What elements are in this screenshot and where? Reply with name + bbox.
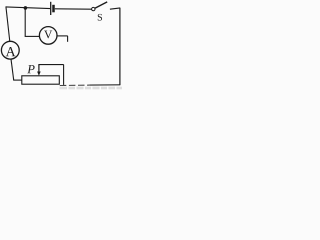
label P	[27, 65, 34, 73]
switch S pivot circle	[92, 7, 95, 10]
wire bottom (faded/dashed section)	[60, 84, 90, 86]
wire from junction down to voltmeter branch	[24, 8, 26, 37]
wire ammeter bottom down	[11, 59, 14, 80]
wire voltmeter left lead	[25, 35, 40, 37]
rheostat P body (box)	[22, 76, 60, 84]
wire left vertical (top corner down to ammeter)	[6, 6, 10, 41]
wire stub down from voltmeter right lead	[67, 36, 69, 42]
wire battery to switch	[55, 8, 92, 10]
battery cell: long thin plate (+)	[50, 2, 52, 15]
wire voltmeter right lead	[57, 35, 68, 37]
wire wiper horizontal	[38, 64, 63, 66]
wire right vertical	[119, 8, 121, 85]
wire right of switch to top-right corner	[110, 8, 120, 9]
rheostat wiper arrow shaft	[38, 65, 40, 72]
ammeter A	[1, 41, 19, 59]
watermark	[60, 87, 123, 90]
background	[0, 0, 126, 91]
wire wiper branch down	[63, 65, 65, 85]
wire bottom right section	[90, 84, 120, 86]
rheostat wiper arrowhead	[37, 72, 41, 76]
voltmeter V	[39, 27, 57, 45]
battery cell: short thick plate (-)	[52, 5, 55, 13]
wire to rheostat left end	[13, 79, 22, 81]
switch S blade (open)	[95, 2, 107, 8]
label S	[98, 14, 102, 21]
wire top-left horizontal (corner to battery)	[6, 7, 50, 9]
node junction dot on top wire	[24, 6, 28, 10]
